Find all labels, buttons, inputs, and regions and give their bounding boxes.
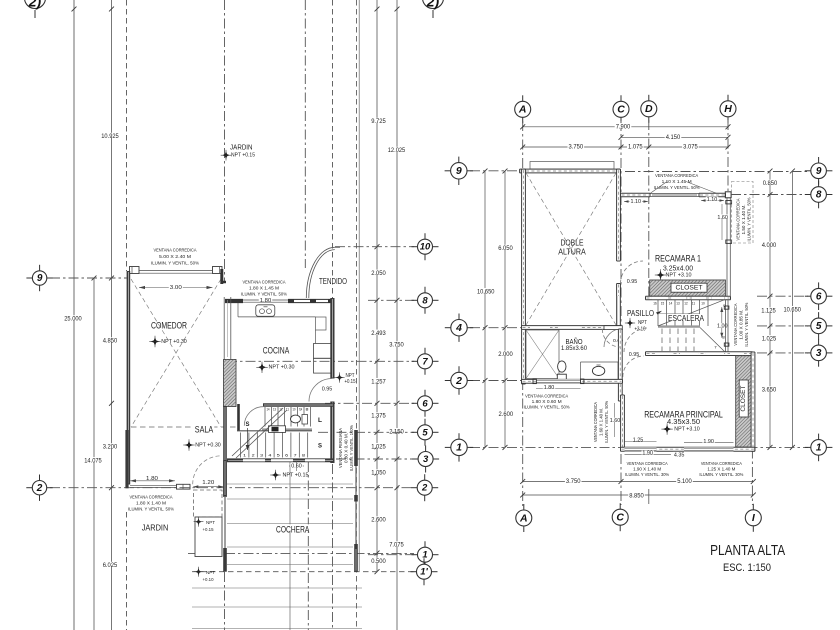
svg-text:1.50 X 1.40 M.: 1.50 X 1.40 M. <box>741 205 746 235</box>
grid bubble 1 right <box>412 554 421 556</box>
right plan top bubble H <box>727 95 729 104</box>
pasillo label <box>626 309 655 315</box>
grid bubble 1 rp-right <box>805 446 814 448</box>
cocina top window <box>243 299 288 301</box>
top dim line 4.150 <box>621 136 728 138</box>
svg-text:1.00: 1.00 <box>717 324 728 330</box>
left plan: axis dash-dot x=305.3 <box>304 0 306 268</box>
comedor-cocina corner jog <box>220 269 223 284</box>
cocina top wall right segment <box>288 299 334 303</box>
left plan: dim line x=377 <box>376 0 378 572</box>
svg-text:ILUMIN. Y VENTIL. 50%: ILUMIN. Y VENTIL. 50% <box>151 261 199 266</box>
svg-text:6: 6 <box>422 398 428 409</box>
rp dims below <box>625 453 672 455</box>
dim text 25.000 <box>63 315 83 320</box>
recamara principal right wall <box>751 352 755 451</box>
axis row 8 stub <box>368 299 414 301</box>
svg-text:5: 5 <box>422 427 428 438</box>
comedor window left cap <box>130 267 140 274</box>
sala label <box>194 424 215 431</box>
svg-text:1: 1 <box>422 550 427 561</box>
top dim line 7.900 <box>523 126 728 128</box>
recamara1 1.10 dims <box>624 201 648 203</box>
grid bubble top center cut <box>423 0 444 9</box>
svg-text:+0.15: +0.15 <box>345 379 356 385</box>
half bath washbasin <box>269 426 286 433</box>
left plan: thin line x=290 cochera <box>289 462 291 630</box>
svg-text:8: 8 <box>722 336 725 340</box>
dim text 1.050 <box>370 469 387 474</box>
svg-text:4.000: 4.000 <box>762 243 777 249</box>
svg-text:1.025: 1.025 <box>371 444 386 450</box>
grid bubble 9 rp-right <box>805 170 814 172</box>
svg-text:ILUMIN. Y VENTIL. 50%: ILUMIN. Y VENTIL. 50% <box>241 292 287 297</box>
jardin npt marker <box>222 151 230 159</box>
comedor 3.00 dim <box>139 287 213 289</box>
sala bottom window 1.80 <box>130 484 177 486</box>
grid bubble 2 top cut <box>25 0 46 9</box>
stairs break diagonal <box>232 408 283 456</box>
svg-text:3.750: 3.750 <box>389 343 404 349</box>
svg-text:3: 3 <box>423 454 429 465</box>
stairs landing band <box>262 428 312 430</box>
svg-text:3: 3 <box>816 348 822 359</box>
svg-text:C: C <box>617 104 625 116</box>
svg-text:1.80 X 1.45 M: 1.80 X 1.45 M <box>249 286 279 291</box>
svg-text:1: 1 <box>816 443 822 454</box>
cocina door arc <box>309 379 332 402</box>
left plan: property dashed line x=126.5 lower <box>126 512 128 630</box>
bano 1.80 dim <box>536 388 581 390</box>
svg-text:SALA: SALA <box>195 424 214 434</box>
rp 1.25 dim <box>625 441 657 443</box>
svg-text:1: 1 <box>456 442 462 454</box>
axis row 1 dash-dot across cochera <box>188 553 414 555</box>
comedor npt <box>151 337 159 345</box>
svg-text:7.075: 7.075 <box>389 543 404 549</box>
stairs top wall <box>263 403 334 407</box>
svg-text:1.20: 1.20 <box>202 480 214 486</box>
cocina west window band upper <box>223 297 225 360</box>
svg-text:2: 2 <box>36 483 43 494</box>
svg-text:ILUMIN. Y VENTIL. 50%: ILUMIN. Y VENTIL. 50% <box>128 507 174 512</box>
svg-text:+0.10: +0.10 <box>203 577 214 583</box>
grid bubble 1 rp-left <box>445 446 454 448</box>
svg-text:1.257: 1.257 <box>371 379 386 385</box>
recamara principal door arc <box>623 356 644 377</box>
svg-text:NPT: NPT <box>346 373 355 379</box>
svg-text:10: 10 <box>701 301 704 305</box>
walkway npt 0.15 <box>195 518 202 525</box>
comedor top window lines <box>139 270 213 272</box>
recamara1 north wall right segment <box>699 193 726 196</box>
svg-text:ILUMIN. Y VENTIL. 100%: ILUMIN. Y VENTIL. 100% <box>349 425 354 471</box>
escalera treads <box>657 300 659 326</box>
svg-text:3.00: 3.00 <box>170 285 182 291</box>
svg-text:ILUMIN. Y VENTIL. 50%: ILUMIN. Y VENTIL. 50% <box>744 302 749 346</box>
svg-text:S: S <box>246 422 250 428</box>
svg-text:1.60 X 1.40 M.: 1.60 X 1.40 M. <box>599 408 604 436</box>
recamara principal closet band <box>736 356 752 447</box>
svg-text:1.80: 1.80 <box>544 385 555 391</box>
svg-text:VENTANA CORREDICA: VENTANA CORREDICA <box>130 495 174 500</box>
axis D remnant tick near 8.850 <box>648 489 650 504</box>
axis row 3 stub <box>336 458 414 460</box>
escalera dashed lower treads <box>661 329 663 352</box>
pasillo door arc2 <box>624 328 648 352</box>
sala door arc <box>193 456 222 485</box>
svg-text:11: 11 <box>286 408 289 412</box>
svg-text:PLANTA ALTA: PLANTA ALTA <box>710 543 785 559</box>
rp bottom window left <box>625 447 657 451</box>
comedor window right cap <box>213 267 223 274</box>
doble altura left wall <box>522 169 526 384</box>
svg-text:NPT +0.15: NPT +0.15 <box>231 153 255 159</box>
svg-text:2: 2 <box>421 483 428 494</box>
axis row6 stub <box>757 295 808 297</box>
svg-text:4.150: 4.150 <box>666 135 681 141</box>
grid bubble 10 <box>412 246 421 248</box>
svg-text:CLOSET: CLOSET <box>676 285 703 292</box>
svg-text:5: 5 <box>816 321 822 332</box>
doble altura right wall <box>617 169 621 261</box>
svg-text:1.90: 1.90 <box>642 451 653 457</box>
dim text 3.750 left plan <box>388 341 405 346</box>
svg-text:10: 10 <box>293 408 296 412</box>
rp bottom window right <box>684 447 734 451</box>
recamara1 east annotation dashed box <box>732 182 754 244</box>
bano toilet <box>558 361 566 372</box>
svg-text:3.075: 3.075 <box>683 144 698 150</box>
stairs left post <box>237 404 240 431</box>
svg-text:CLOSET: CLOSET <box>741 385 747 411</box>
left plan: fence dashed x=356.5 <box>356 0 358 630</box>
dim text 4.850 <box>102 337 119 342</box>
right plan top bubble A <box>522 95 524 104</box>
svg-text:VENTANA CORREDICA: VENTANA CORREDICA <box>701 461 743 466</box>
sala 1.80 dim <box>130 480 175 482</box>
svg-text:2.050: 2.050 <box>371 271 386 277</box>
cocina west hatched band <box>224 360 237 407</box>
svg-text:7: 7 <box>422 356 428 367</box>
svg-text:RECAMARA PRINCIPAL: RECAMARA PRINCIPAL <box>644 409 723 419</box>
tendido npt <box>336 374 343 381</box>
dim text 10.925 <box>100 133 120 138</box>
dim text 6.025 <box>102 562 119 567</box>
svg-text:COCINA: COCINA <box>263 345 290 355</box>
cochera driveway lines <box>227 483 353 485</box>
recamara1 corner post <box>725 192 731 198</box>
dim text 2.600 left <box>370 516 387 521</box>
svg-text:+0.15: +0.15 <box>203 527 214 533</box>
bano shower <box>526 330 559 379</box>
grid bubble 8 <box>412 299 421 301</box>
stairs lower treads <box>240 433 242 458</box>
svg-text:NPT: NPT <box>206 570 215 576</box>
grid bubble 2 left <box>26 487 35 489</box>
bano sink counter <box>581 361 619 363</box>
left plan: lot line vertical x=74 <box>73 0 75 630</box>
left plan: property dashed line x=126.5 upper <box>126 0 128 271</box>
bano bottom wall <box>522 379 623 383</box>
left plan: dim line 14.075 x=94 <box>93 278 95 630</box>
svg-text:4.850: 4.850 <box>103 339 118 345</box>
svg-text:15: 15 <box>661 301 664 305</box>
kitchen right counter boxes <box>316 317 327 330</box>
sala window sill box <box>177 484 191 489</box>
left plan: dashed line x=332.5 lower (cochera) <box>332 464 334 630</box>
right plan bottom bubble A <box>523 504 525 513</box>
right plan top bubble D <box>648 95 650 104</box>
dim text 0.500 <box>370 558 387 563</box>
svg-text:1.80 X 1.40 M: 1.80 X 1.40 M <box>136 501 166 506</box>
left plan: dashed line x=332.5 upper (tendido) <box>332 0 334 298</box>
recamara1 door arc <box>621 261 644 284</box>
svg-text:VENTANA CORREDICA: VENTANA CORREDICA <box>655 173 699 178</box>
escalera landing gray <box>658 325 700 327</box>
svg-text:5.100: 5.100 <box>677 479 692 485</box>
bano label <box>565 337 584 343</box>
svg-text:1.025: 1.025 <box>762 336 777 342</box>
axis row 6 stub <box>325 402 414 404</box>
axis row 1 stub2 <box>368 554 414 556</box>
svg-text:0.95: 0.95 <box>322 387 333 393</box>
svg-text:10.650: 10.650 <box>477 289 495 295</box>
svg-text:RECAMARA 1: RECAMARA 1 <box>655 254 701 264</box>
svg-text:NPT +3.10: NPT +3.10 <box>674 427 700 433</box>
svg-text:8: 8 <box>816 190 822 201</box>
axis row3 stub <box>757 352 808 354</box>
grid bubble 3 rp-right <box>805 352 814 354</box>
right plan bottom bubble I <box>752 504 754 513</box>
svg-text:1.80: 1.80 <box>260 298 272 304</box>
svg-text:JARDIN: JARDIN <box>142 524 169 533</box>
recamara1 north window <box>650 193 699 195</box>
sala 1.20 dim <box>193 486 223 488</box>
right plan top bubble C <box>620 95 622 104</box>
svg-text:2.493: 2.493 <box>371 331 386 337</box>
half bath toilet <box>291 415 301 423</box>
escalera 1.00 dim <box>721 307 723 338</box>
axis row 9 left stub <box>50 277 127 279</box>
cocina top wall left segment <box>225 299 243 303</box>
axis row1 across <box>470 446 808 448</box>
svg-text:ILUMIN. Y VENTIL. 50%: ILUMIN. Y VENTIL. 50% <box>604 401 609 443</box>
svg-text:0.95: 0.95 <box>627 279 638 285</box>
escalera diagonals <box>658 300 725 326</box>
bano door arc <box>602 329 620 347</box>
axis row4 stub <box>470 327 522 329</box>
walkway solid box <box>195 517 222 557</box>
svg-text:1.80: 1.80 <box>146 476 158 482</box>
svg-text:1.85x3.60: 1.85x3.60 <box>561 345 587 352</box>
svg-text:13: 13 <box>676 301 679 305</box>
jardin left wall end <box>125 430 128 488</box>
svg-text:JARDIN: JARDIN <box>230 142 253 151</box>
svg-text:ILUMIN. Y VENTIL. 30%: ILUMIN. Y VENTIL. 30% <box>625 472 669 477</box>
left plan: axis dash-dot x=306.7 in cochera <box>307 462 309 630</box>
bottom dim line 3.750/5.100 <box>523 481 754 483</box>
escalera mid line <box>658 313 700 315</box>
comedor left wall <box>127 271 131 485</box>
stair direction arrow tip <box>656 311 662 315</box>
svg-text:1.075: 1.075 <box>628 144 643 150</box>
svg-text:2.600: 2.600 <box>371 518 386 524</box>
svg-text:8: 8 <box>302 454 305 458</box>
axis row5 stub <box>757 325 808 327</box>
svg-text:4.35: 4.35 <box>674 452 685 458</box>
bano top wall end post <box>604 326 622 330</box>
stairs bottom wall <box>227 458 334 462</box>
walkway dashed box <box>194 490 223 517</box>
bano right wall <box>618 329 622 401</box>
svg-text:9: 9 <box>299 408 302 412</box>
svg-text:ALTURA: ALTURA <box>558 247 586 257</box>
svg-text:A: A <box>518 104 527 116</box>
grid bubble 2 right <box>411 487 420 489</box>
dim text 2.493 <box>370 330 387 335</box>
recamara principal bottom wall <box>621 447 755 451</box>
left dim ticks <box>375 7 380 12</box>
svg-text:1.10: 1.10 <box>631 199 642 205</box>
rp 1.90 dim inside <box>684 441 734 443</box>
svg-text:1.80 X 0.60 M: 1.80 X 0.60 M <box>532 399 562 404</box>
svg-text:14.075: 14.075 <box>84 458 102 464</box>
svg-text:1.25: 1.25 <box>633 438 644 444</box>
svg-text:L: L <box>318 418 322 424</box>
grid bubble 2 rp-left <box>445 380 454 382</box>
svg-text:4.35x3.50: 4.35x3.50 <box>667 419 700 426</box>
grid bubble 9 left <box>26 277 35 279</box>
svg-text:NPT: NPT <box>638 320 647 326</box>
svg-text:8: 8 <box>422 295 428 306</box>
svg-text:1.00 X 0.85 M.: 1.00 X 0.85 M. <box>739 310 744 340</box>
svg-text:H: H <box>724 103 732 115</box>
grid bubble 9 rp-left <box>445 170 454 172</box>
cochera right wall <box>354 430 358 466</box>
dim text 1.257 <box>370 378 387 383</box>
svg-text:6: 6 <box>285 454 288 458</box>
svg-text:9: 9 <box>37 273 43 284</box>
left dim line x=505 <box>504 171 506 447</box>
grid bubble 8 rp-right <box>805 194 814 196</box>
svg-text:9.725: 9.725 <box>371 119 386 125</box>
left dim line x=485 <box>484 171 486 447</box>
svg-text:1: 1 <box>243 454 246 458</box>
svg-text:3.750: 3.750 <box>569 144 584 150</box>
axis row 2 dash-dot across <box>50 487 414 489</box>
cochera npt 0.15 <box>272 471 280 479</box>
svg-text:7.900: 7.900 <box>616 124 631 130</box>
axis row 1' dashed <box>192 571 414 573</box>
cochera label <box>275 524 310 531</box>
sala npt <box>185 441 193 449</box>
axis row 5 stub <box>318 431 414 433</box>
recamara1 closet hatch band <box>650 280 726 296</box>
svg-text:2: 2 <box>455 375 462 387</box>
axis D vertical <box>648 120 650 298</box>
svg-text:10: 10 <box>420 242 431 253</box>
svg-text:VENTANA CORREDICA: VENTANA CORREDICA <box>154 248 198 253</box>
dim text 1.375 <box>370 412 387 417</box>
svg-text:ILUMIN. Y VENTIL. 50%: ILUMIN. Y VENTIL. 50% <box>747 197 752 241</box>
svg-text:6.025: 6.025 <box>103 563 118 569</box>
svg-text:D: D <box>645 103 653 115</box>
svg-text:16: 16 <box>653 301 656 305</box>
svg-text:ESCALERA: ESCALERA <box>668 314 705 323</box>
svg-text:7: 7 <box>294 454 297 458</box>
axis A vertical <box>522 121 524 506</box>
svg-text:ILUMIN. Y VENTIL. 50%: ILUMIN. Y VENTIL. 50% <box>524 405 570 410</box>
axis I vertical <box>751 356 753 505</box>
grid bubble 4 rp-left <box>445 327 454 329</box>
comedor-sala cross dashed <box>131 279 221 427</box>
wall below closet r1 <box>646 296 731 299</box>
svg-text:11: 11 <box>692 301 695 305</box>
svg-text:VENTANA CORREDICA: VENTANA CORREDICA <box>243 280 287 285</box>
svg-text:2: 2 <box>252 454 255 458</box>
sala east wall <box>223 406 227 497</box>
svg-text:8: 8 <box>306 408 309 412</box>
escalera right wall <box>725 300 727 352</box>
grid bubble 3 <box>412 458 421 460</box>
bano bottom window <box>536 379 581 383</box>
svg-text:6: 6 <box>816 291 822 302</box>
svg-text:9: 9 <box>456 165 462 177</box>
left plan: dim line x=111.5 <box>111 0 113 630</box>
svg-text:2): 2) <box>28 0 42 10</box>
svg-text:VENTANA CORREDICA: VENTANA CORREDICA <box>736 198 741 240</box>
svg-text:9: 9 <box>816 166 822 177</box>
svg-text:14: 14 <box>267 408 270 412</box>
svg-text:1': 1' <box>420 567 428 578</box>
axis row9 left stub right plan <box>470 170 522 172</box>
dim text 12.025 <box>387 147 407 152</box>
stairs 0.60 dim <box>289 465 304 467</box>
left plan: axis dash-dot x=224.5 upper <box>224 0 226 283</box>
right plan bottom bubble C <box>619 503 621 512</box>
top dim line 3.750/1.075/3.075 <box>523 146 728 148</box>
svg-text:0.500: 0.500 <box>371 559 386 565</box>
dim text 1.025 left <box>370 443 387 448</box>
svg-text:1.90 X 1.40 M: 1.90 X 1.40 M <box>633 467 661 472</box>
svg-text:3: 3 <box>260 454 263 458</box>
cocina east wall upper <box>330 298 334 379</box>
svg-text:ILUMIN. Y VENTIL. 30%: ILUMIN. Y VENTIL. 30% <box>699 472 743 477</box>
svg-text:1.60: 1.60 <box>610 418 621 424</box>
recamara1 north wall left wing <box>621 193 651 196</box>
recamara1 1.60 dim <box>721 204 723 240</box>
svg-text:5: 5 <box>277 454 280 458</box>
svg-text:7: 7 <box>714 345 717 349</box>
svg-text:S: S <box>318 444 322 450</box>
svg-text:A: A <box>519 512 528 524</box>
cochera left wall <box>223 460 227 496</box>
left plan: axis dash-dot x=224.5 lower <box>224 572 226 630</box>
svg-text:VENTANA PERSIANA: VENTANA PERSIANA <box>338 428 343 468</box>
svg-text:1.125: 1.125 <box>761 309 776 315</box>
escalera label <box>667 314 705 320</box>
grid bubble 6 <box>412 402 421 404</box>
dim text 14.075 <box>83 457 103 462</box>
doble altura cross <box>526 173 616 325</box>
axis C vertical <box>620 121 622 505</box>
right dim line x=792.4 <box>791 171 793 447</box>
cocina east wall lower / stairs right wall <box>330 402 334 464</box>
svg-text:PASILLO: PASILLO <box>627 309 654 318</box>
axis row 10 stub <box>335 246 414 248</box>
svg-text:8.850: 8.850 <box>629 494 644 500</box>
